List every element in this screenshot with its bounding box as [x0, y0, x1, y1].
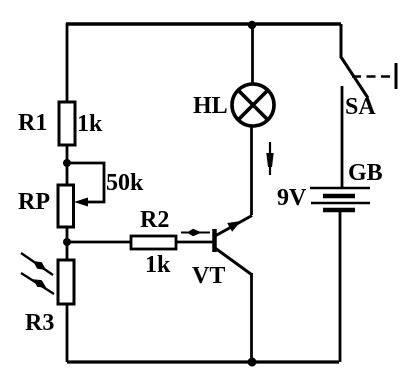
svg-text:HL: HL [193, 93, 228, 119]
wire right rail upper [341, 86, 344, 188]
svg-text:1k: 1k [145, 252, 171, 278]
wire collector vertical [250, 126, 253, 215]
svg-text:50k: 50k [106, 170, 144, 196]
potentiometer RP wiper arrow [74, 198, 88, 207]
svg-text:9V: 9V [277, 185, 307, 211]
lamp HL [232, 84, 274, 126]
wire top rail [66, 22, 341, 25]
wire R3 to bottom rail [66, 304, 69, 362]
wire lamp top lead [251, 24, 254, 85]
node bottom junction [248, 358, 257, 367]
wire RP wiper loop [67, 163, 104, 202]
switch SA blade [341, 57, 368, 98]
svg-text:GB: GB [348, 160, 383, 186]
transistor VT base bar [212, 229, 217, 252]
battery GB plate 4 (short) [323, 208, 355, 213]
svg-text:SA: SA [345, 94, 376, 120]
svg-text:VT: VT [192, 263, 225, 289]
wire RP to R3 [66, 227, 69, 260]
wire R2 to base [176, 241, 213, 244]
resistor R1 [59, 102, 75, 145]
switch SA actuator dashed link [352, 75, 392, 78]
svg-text:R1: R1 [18, 110, 47, 136]
transistor VT emitter stroke [215, 248, 252, 275]
svg-text:1k: 1k [77, 111, 103, 137]
potentiometer RP body [58, 185, 74, 227]
switch SA actuator terminal [395, 63, 398, 89]
wire right rail lower [339, 210, 342, 362]
light arrow 2 [21, 273, 54, 294]
wire node B to R2 [67, 241, 131, 244]
svg-text:R2: R2 [140, 207, 169, 233]
node top junction [248, 21, 256, 29]
base current arrow [181, 232, 210, 234]
battery GB plate 1 (long) [310, 187, 370, 190]
wire left rail upper [66, 23, 69, 102]
transistor VT collector stroke [215, 216, 252, 237]
svg-text:R3: R3 [25, 310, 54, 336]
svg-text:RP: RP [18, 189, 50, 215]
photoresistor R3 body [58, 260, 74, 304]
node A (R1/RP junction) [63, 159, 71, 167]
switch SA stub [340, 24, 343, 58]
wire emitter vertical [250, 273, 253, 362]
resistor R2 [131, 236, 176, 249]
wire R1 to RP [66, 145, 69, 185]
battery GB plate 2 (short) [323, 194, 355, 199]
wire bottom rail [67, 360, 339, 363]
light arrow 1 [21, 253, 53, 275]
battery GB plate 3 (long) [311, 202, 370, 205]
node B (base-wire junction) [63, 238, 71, 246]
collector current arrow [269, 142, 271, 175]
